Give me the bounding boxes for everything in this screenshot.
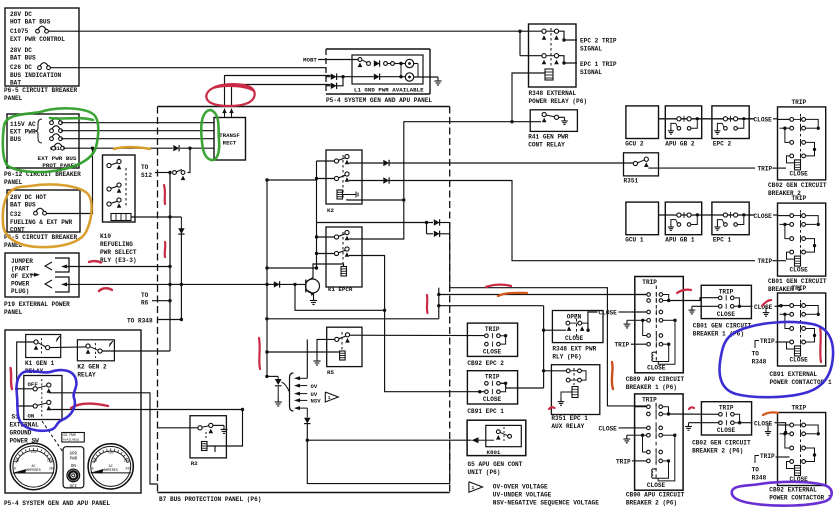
lower diode branch (326, 85, 331, 87)
CB01-1 close wire to contactor 1 (739, 305, 752, 307)
svg-text:TO: TO (141, 164, 149, 171)
TRANSF RECT box (214, 118, 246, 161)
diode (173, 145, 179, 151)
wire C1075 to R348 (49, 30, 544, 32)
svg-text:TRIP: TRIP (760, 338, 775, 345)
svg-text:GRD: GRD (70, 453, 78, 457)
diode (331, 83, 337, 89)
wires from TRANSF up to P5-4 panel (225, 76, 331, 107)
lower loop wire (307, 440, 449, 483)
diode (274, 281, 280, 287)
svg-text:JUMPER: JUMPER (11, 258, 33, 265)
R2 relay box (190, 416, 226, 458)
R351 aux coil (572, 387, 578, 398)
wire y=288 to CB90 via x=607.4 (450, 288, 650, 406)
svg-text:EXT PWR BUS: EXT PWR BUS (38, 155, 77, 162)
svg-text:UV-UNDER VOLTAGE: UV-UNDER VOLTAGE (493, 492, 552, 499)
svg-text:CB02 GEN CIRCUIT: CB02 GEN CIRCUIT (692, 440, 751, 447)
diode (374, 60, 380, 66)
circuit breaker (36, 29, 40, 33)
svg-text:150: 150 (47, 459, 53, 463)
svg-text:AMPERES: AMPERES (26, 469, 40, 473)
svg-text:GROUND: GROUND (10, 430, 32, 437)
CB01-1 left ground stub (692, 305, 719, 307)
wire K1 rail to diode pair (317, 222, 434, 224)
orange annotation loop (28VDC C32 box) (3, 184, 92, 247)
svg-text:CLOSE: CLOSE (565, 335, 584, 342)
circuit breaker (52, 146, 56, 150)
svg-text:CLOSE: CLOSE (754, 213, 773, 220)
K1 EPCR relay box (326, 227, 362, 287)
S1 off wire down to B7 (49, 393, 158, 484)
gen bus wire (659, 118, 755, 120)
B7 bus protection panel box (158, 106, 450, 108)
svg-text:100: 100 (108, 450, 114, 454)
svg-text:CB91 EXTERNAL: CB91 EXTERNAL (770, 371, 818, 378)
svg-text:MOBT: MOBT (303, 57, 317, 64)
R5 coil feed from K2 vertical (267, 351, 340, 353)
svg-text:TRIP: TRIP (615, 342, 630, 349)
indicator lamp (405, 73, 413, 81)
K1 contact2 wire down to CB91 EPC1 (349, 256, 478, 392)
svg-text:200: 200 (125, 466, 131, 470)
vertical wire x=170 down to K2 gen relay (169, 173, 171, 352)
svg-text:CLOSE: CLOSE (647, 482, 666, 489)
CB11 wire with diode to TRANSF (63, 147, 173, 149)
riser x=438.8 (438, 288, 440, 319)
relay contact (335, 337, 339, 341)
CB92 EXTERNAL POWER CONTACTOR 2 box (778, 413, 826, 486)
R348 ext pwr rly box (552, 311, 603, 343)
svg-text:K1 EPCR: K1 EPCR (328, 286, 353, 293)
svg-text:TRIP: TRIP (758, 258, 773, 265)
K10 refueling pwr select rly box (103, 155, 136, 222)
svg-text:R41 GEN PWR: R41 GEN PWR (528, 134, 569, 141)
svg-text:K2: K2 (327, 207, 334, 214)
K2 relay box (326, 150, 362, 204)
svg-text:R351: R351 (624, 178, 639, 185)
svg-text:APU GB 1: APU GB 1 (665, 237, 695, 244)
svg-text:0: 0 (92, 466, 94, 470)
CB90 APU circuit breaker 2 box (635, 394, 684, 490)
svg-text:SIGNAL: SIGNAL (580, 46, 602, 53)
svg-text:PLUG): PLUG) (11, 288, 29, 295)
K2 GEN 2 relay box (77, 340, 114, 361)
ground (670, 224, 672, 227)
relay wires (17, 342, 34, 406)
svg-text:28V DC HOT: 28V DC HOT (10, 194, 47, 201)
green annotation loop (115V AC box) (3, 108, 98, 172)
diode (374, 74, 380, 80)
svg-text:CB91 EPC 1: CB91 EPC 1 (467, 408, 504, 415)
vertical x=543.6 down with taps (543, 306, 545, 388)
relay contact (107, 187, 111, 191)
ground (767, 428, 769, 432)
svg-text:NSV: NSV (311, 398, 322, 405)
svg-text:TRIP: TRIP (792, 195, 807, 202)
svg-text:CLOSE: CLOSE (754, 117, 773, 124)
svg-text:OV-OVER VOLTAGE: OV-OVER VOLTAGE (493, 484, 548, 491)
svg-text:RELAY: RELAY (77, 372, 96, 379)
P6-12 circuit breaker panel box (115V AC EXT PWR BUS) (7, 114, 79, 168)
ground (437, 77, 439, 81)
bottom arrow down wire + diode to K801 line (306, 408, 308, 417)
svg-text:GCU 2: GCU 2 (625, 140, 644, 147)
K1 left feeds (317, 236, 335, 238)
corner to CB91 EPC1 right contact (500, 383, 543, 388)
svg-text:TRIP: TRIP (760, 453, 775, 460)
ground (688, 423, 690, 427)
CB90 out to CB02-2 (669, 413, 721, 415)
red tick r17 (689, 407, 694, 409)
svg-text:TRIP: TRIP (792, 99, 807, 106)
CB91 EXTERNAL POWER CONTACTOR 1 box (778, 293, 826, 366)
R5 relay box (327, 327, 362, 366)
wire C26 to P5-4 panel (51, 67, 327, 69)
svg-text:CLOSE: CLOSE (483, 349, 502, 356)
CB02-2 left ground stub (689, 422, 720, 424)
relay contact (107, 163, 111, 167)
svg-text:R5: R5 (327, 369, 334, 376)
svg-text:115V AC: 115V AC (10, 121, 36, 128)
svg-text:EPC 2 TRIP: EPC 2 TRIP (580, 38, 617, 45)
ground (716, 127, 718, 130)
svg-text:TRIP: TRIP (719, 405, 734, 412)
svg-text:OV: OV (311, 383, 318, 390)
svg-text:PANEL: PANEL (4, 179, 23, 186)
jumper pin brackets (55, 258, 69, 272)
R5 ground (317, 339, 335, 357)
svg-text:TRIP: TRIP (485, 374, 500, 381)
svg-text:200: 200 (49, 467, 55, 471)
K2 wire down to bus protection components (266, 180, 268, 376)
svg-text:SIGNAL: SIGNAL (580, 69, 602, 76)
diode (383, 177, 389, 183)
svg-text:CLOSE: CLOSE (647, 365, 666, 372)
ground (626, 435, 628, 439)
svg-text:R348: R348 (752, 475, 767, 482)
svg-text:100: 100 (31, 450, 37, 454)
legend triangle 1 (469, 482, 483, 493)
svg-text:POWER CONTACTOR 2: POWER CONTACTOR 2 (769, 495, 832, 502)
svg-text:150: 150 (123, 458, 129, 462)
relay coil (340, 351, 346, 360)
svg-text:POWER: POWER (11, 281, 30, 288)
ground (560, 398, 562, 402)
svg-text:C1075: C1075 (10, 28, 29, 35)
red mark f (11, 368, 13, 389)
wire to K801 (307, 439, 471, 441)
CB91 EPC 1 box (467, 371, 517, 404)
red mark b (164, 185, 165, 204)
svg-text:EXT PWR: EXT PWR (10, 129, 36, 136)
svg-text:BUS INDICATION: BUS INDICATION (10, 72, 62, 79)
svg-text:REFUELING: REFUELING (100, 241, 133, 248)
R351 EPC1 aux relay box (551, 365, 599, 415)
orange mark r15 (763, 412, 778, 415)
svg-text:AUX RELAY: AUX RELAY (551, 423, 584, 430)
L1 GND PWR AVAILABLE inner box (352, 55, 423, 84)
ground (716, 224, 718, 227)
tap to R348 ext pwr rly (544, 329, 566, 331)
contactor2 trip stub (755, 456, 759, 464)
ground (223, 425, 225, 429)
svg-text:HOT BAT BUS: HOT BAT BUS (10, 19, 51, 26)
svg-text:CB92 EXTERNAL: CB92 EXTERNAL (769, 487, 817, 494)
svg-text:50: 50 (93, 458, 97, 462)
svg-text:R2: R2 (191, 460, 198, 467)
svg-text:ON: ON (71, 465, 77, 469)
P19 external power panel box (5, 253, 79, 297)
svg-text:TO: TO (752, 351, 760, 358)
indicator lamp (405, 59, 413, 67)
K2 left feed (317, 160, 335, 162)
R41 gen pwr cont relay box (530, 110, 577, 132)
red mark d (99, 288, 112, 291)
svg-text:K801: K801 (487, 449, 501, 456)
svg-text:P5-4 SYSTEM GEN AND APU PANEL: P5-4 SYSTEM GEN AND APU PANEL (4, 500, 110, 507)
svg-text:K1 GEN 1: K1 GEN 1 (25, 360, 55, 367)
circuit breaker (38, 66, 42, 70)
svg-text:POWER RELAY (P6): POWER RELAY (P6) (529, 98, 588, 105)
svg-text:EPC 1: EPC 1 (713, 237, 732, 244)
svg-text:CB92 EPC 2: CB92 EPC 2 (467, 360, 504, 367)
transistor driver for K1 (306, 279, 320, 293)
svg-text:RLY (P6): RLY (P6) (552, 354, 581, 361)
svg-text:AVAILABLE: AVAILABLE (63, 438, 79, 441)
CB02 gen circuit breaker 2 (P6) small box (701, 402, 751, 435)
purple loop around contactor 2 labels (732, 482, 832, 506)
legend triangle 1 (325, 392, 338, 402)
ground (316, 357, 318, 361)
APU GB 2 box (665, 106, 701, 139)
APU GB 1 box (665, 202, 701, 235)
svg-text:R6: R6 (141, 300, 149, 307)
svg-text:BAT BUS: BAT BUS (10, 202, 36, 209)
svg-text:TRIP: TRIP (719, 288, 734, 295)
svg-text:C26 DC: C26 DC (10, 64, 32, 71)
115V wires to TRANSF RECT (61, 122, 214, 124)
ground tap near contactor1 (765, 306, 767, 309)
svg-text:CB89 APU CIRCUIT: CB89 APU CIRCUIT (626, 376, 685, 383)
svg-text:TRIP: TRIP (792, 285, 807, 292)
R348 contact row 1 (542, 29, 546, 33)
R5 contact wire to CB92 EPC2 (350, 334, 485, 336)
blue loop around contactor 1 (720, 322, 834, 397)
R5 down wire to top arrow (306, 339, 308, 378)
jumper wire 2 (to transistor) (64, 283, 274, 285)
svg-text:C32: C32 (10, 211, 21, 218)
svg-text:TRIP: TRIP (616, 458, 631, 465)
ground (564, 117, 566, 121)
red mark r14 (820, 327, 821, 362)
diode (434, 231, 440, 237)
ground (670, 127, 672, 130)
S1 on wire to R2 (49, 409, 243, 411)
GRD PWR switch panel (63, 447, 84, 488)
svg-text:RECT: RECT (223, 140, 237, 147)
GS PWR AVAILABLE tiny box (62, 433, 85, 443)
circuit breaker (34, 211, 38, 215)
green blob on TRANSF left edge (201, 110, 219, 160)
svg-text:50: 50 (15, 459, 19, 463)
orange mark r9 (498, 293, 527, 296)
R351 relay box (624, 153, 659, 176)
K10 coil (111, 214, 131, 221)
svg-text:OPEN: OPEN (567, 314, 582, 321)
R348 contact row 2 (542, 54, 546, 58)
svg-text:APU GB 2: APU GB 2 (665, 140, 695, 147)
diode pair (425, 221, 428, 224)
svg-text:TRANSF: TRANSF (219, 132, 240, 139)
red ellipse above TRANSF (206, 84, 254, 106)
svg-text:CLOSE: CLOSE (717, 311, 736, 318)
K801 contact (496, 430, 500, 434)
K1 epcr bottom rail from base-wire junction (295, 284, 385, 310)
S1 switch box (24, 376, 62, 420)
K801 G5 box (467, 420, 526, 455)
K1 contact1 wire up right to R41/R348 coil (349, 122, 541, 239)
orange stroke near CB11 wire (114, 147, 150, 149)
svg-text:BAT BUS: BAT BUS (10, 55, 36, 62)
P6-5 circuit breaker panel box (top) (5, 8, 79, 86)
K1 gen1 contact (34, 340, 38, 344)
wire to R351 (349, 180, 383, 182)
svg-text:EPC 2: EPC 2 (713, 140, 732, 147)
CB01 GEN CIRCUIT BREAKER 1 box (778, 203, 826, 276)
orange-red vertical r11 (612, 362, 613, 389)
svg-text:ON: ON (28, 413, 35, 420)
gen bus wire (659, 214, 755, 216)
relay contact (107, 202, 111, 206)
opto bracket with arrows (290, 373, 294, 411)
CB89 close stub from R348 rly (588, 312, 598, 330)
CB02 GEN CIRCUIT BREAKER 2 box (778, 107, 826, 180)
svg-text:CLOSE: CLOSE (790, 267, 809, 274)
S1 contact off (33, 387, 37, 391)
svg-text:28V DC: 28V DC (10, 11, 32, 18)
svg-text:CB01 GEN CIRCUIT: CB01 GEN CIRCUIT (768, 278, 827, 285)
lower wire through panel to ground (326, 76, 331, 78)
svg-text:UNIT (P6): UNIT (P6) (468, 469, 501, 476)
jumper wire 1 (64, 173, 170, 267)
R41 contact (542, 112, 546, 116)
svg-text:PANEL: PANEL (4, 95, 23, 102)
svg-text:TRIP: TRIP (642, 279, 657, 286)
P5-4 top panel box (326, 48, 430, 50)
CB89 out to CB01-1 (669, 298, 720, 301)
svg-text:PWR SELECT: PWR SELECT (100, 249, 137, 256)
svg-text:R348: R348 (752, 359, 767, 366)
svg-text:P5-4 SYSTEM GEN AND APU PANEL: P5-4 SYSTEM GEN AND APU PANEL (326, 97, 432, 104)
C32 wire up to CB11 wire (47, 148, 93, 213)
diode (178, 228, 184, 234)
P5-4 bottom panel box (5, 330, 141, 493)
svg-text:(PART: (PART (11, 266, 30, 273)
svg-text:S12: S12 (141, 172, 152, 179)
wire y=294.5 to CB89 trip row (439, 294, 649, 296)
ground (277, 398, 279, 402)
svg-text:CLOSE: CLOSE (790, 170, 809, 177)
diode (434, 219, 440, 225)
CB01 gen circuit breaker 1 (P6) small box (701, 285, 751, 318)
svg-text:1: 1 (472, 485, 475, 491)
red mark r12 (677, 290, 691, 293)
R351 out wire to CB02 trip (648, 167, 755, 169)
K1 GEN 1 relay box (26, 335, 61, 358)
svg-text:CLOSE: CLOSE (790, 357, 809, 364)
red wavy g (71, 404, 108, 408)
K2 diode outputs (349, 162, 383, 164)
svg-text:1: 1 (328, 395, 331, 401)
svg-text:PWR: PWR (70, 458, 78, 462)
red mark r13 (762, 300, 771, 306)
diode (331, 74, 337, 80)
svg-text:OF EXT: OF EXT (11, 273, 33, 280)
svg-text:R351 EPC 1: R351 EPC 1 (551, 415, 588, 422)
red mark e (164, 242, 167, 257)
R2 feed wire (158, 427, 199, 429)
svg-text:BUS: BUS (10, 136, 21, 143)
relay coil (341, 267, 347, 277)
MOBT switch (358, 58, 362, 62)
blue loop around S1 (17, 370, 77, 431)
svg-text:TRIP: TRIP (758, 166, 773, 173)
svg-text:CLOSE: CLOSE (754, 421, 773, 428)
svg-text:CB90 APU CIRCUIT: CB90 APU CIRCUIT (626, 491, 685, 498)
arrows into TRANSF top (222, 109, 227, 114)
AC amperes gauge (88, 444, 133, 489)
R348 coil feed vertical (512, 73, 545, 122)
CB92 EPC 2 box (467, 323, 517, 356)
red tick r16 (549, 407, 555, 409)
svg-text:B7 BUS PROTECTION PANEL (P6): B7 BUS PROTECTION PANEL (P6) (159, 496, 261, 503)
relay contact (334, 176, 338, 180)
relay coil (337, 190, 343, 199)
svg-text:BREAKER 2 (P6): BREAKER 2 (P6) (692, 448, 743, 455)
svg-text:AMPERES: AMPERES (104, 469, 118, 473)
EPC 1 box (712, 202, 749, 235)
wire via x512 down to CB01 trip (390, 181, 756, 261)
diode (304, 418, 310, 424)
svg-text:EPC 1 TRIP: EPC 1 TRIP (580, 61, 617, 68)
svg-text:TRIP: TRIP (642, 396, 657, 403)
svg-text:EXT PWR CONTROL: EXT PWR CONTROL (10, 36, 65, 43)
diode (383, 160, 389, 166)
ground (626, 320, 628, 324)
svg-text:OFF: OFF (70, 486, 78, 490)
svg-text:TRIP: TRIP (792, 405, 807, 412)
circuit breaker (50, 137, 54, 141)
svg-text:R348 EXTERNAL: R348 EXTERNAL (529, 90, 577, 97)
circuit breaker (50, 129, 54, 133)
wire y=306 to x=543.6 (439, 305, 544, 307)
dashed diagonal to grd pwr switch (42, 421, 63, 452)
svg-text:CLOSE: CLOSE (483, 396, 502, 403)
CB89 APU circuit breaker 1 box (635, 277, 684, 373)
S1 contact on (33, 404, 37, 408)
CB02-2 close wire to contactor 2 (740, 422, 753, 424)
svg-text:BREAKER 2 (P6): BREAKER 2 (P6) (626, 499, 677, 506)
ground (691, 306, 693, 310)
R348 external power relay box (529, 24, 577, 87)
SCR (265, 375, 268, 378)
svg-text:TO R348: TO R348 (127, 318, 153, 325)
circuit breaker (50, 121, 54, 125)
svg-text:TO: TO (752, 467, 760, 474)
ground (765, 309, 767, 313)
P6-5 circuit breaker panel box (C32) (7, 190, 80, 232)
